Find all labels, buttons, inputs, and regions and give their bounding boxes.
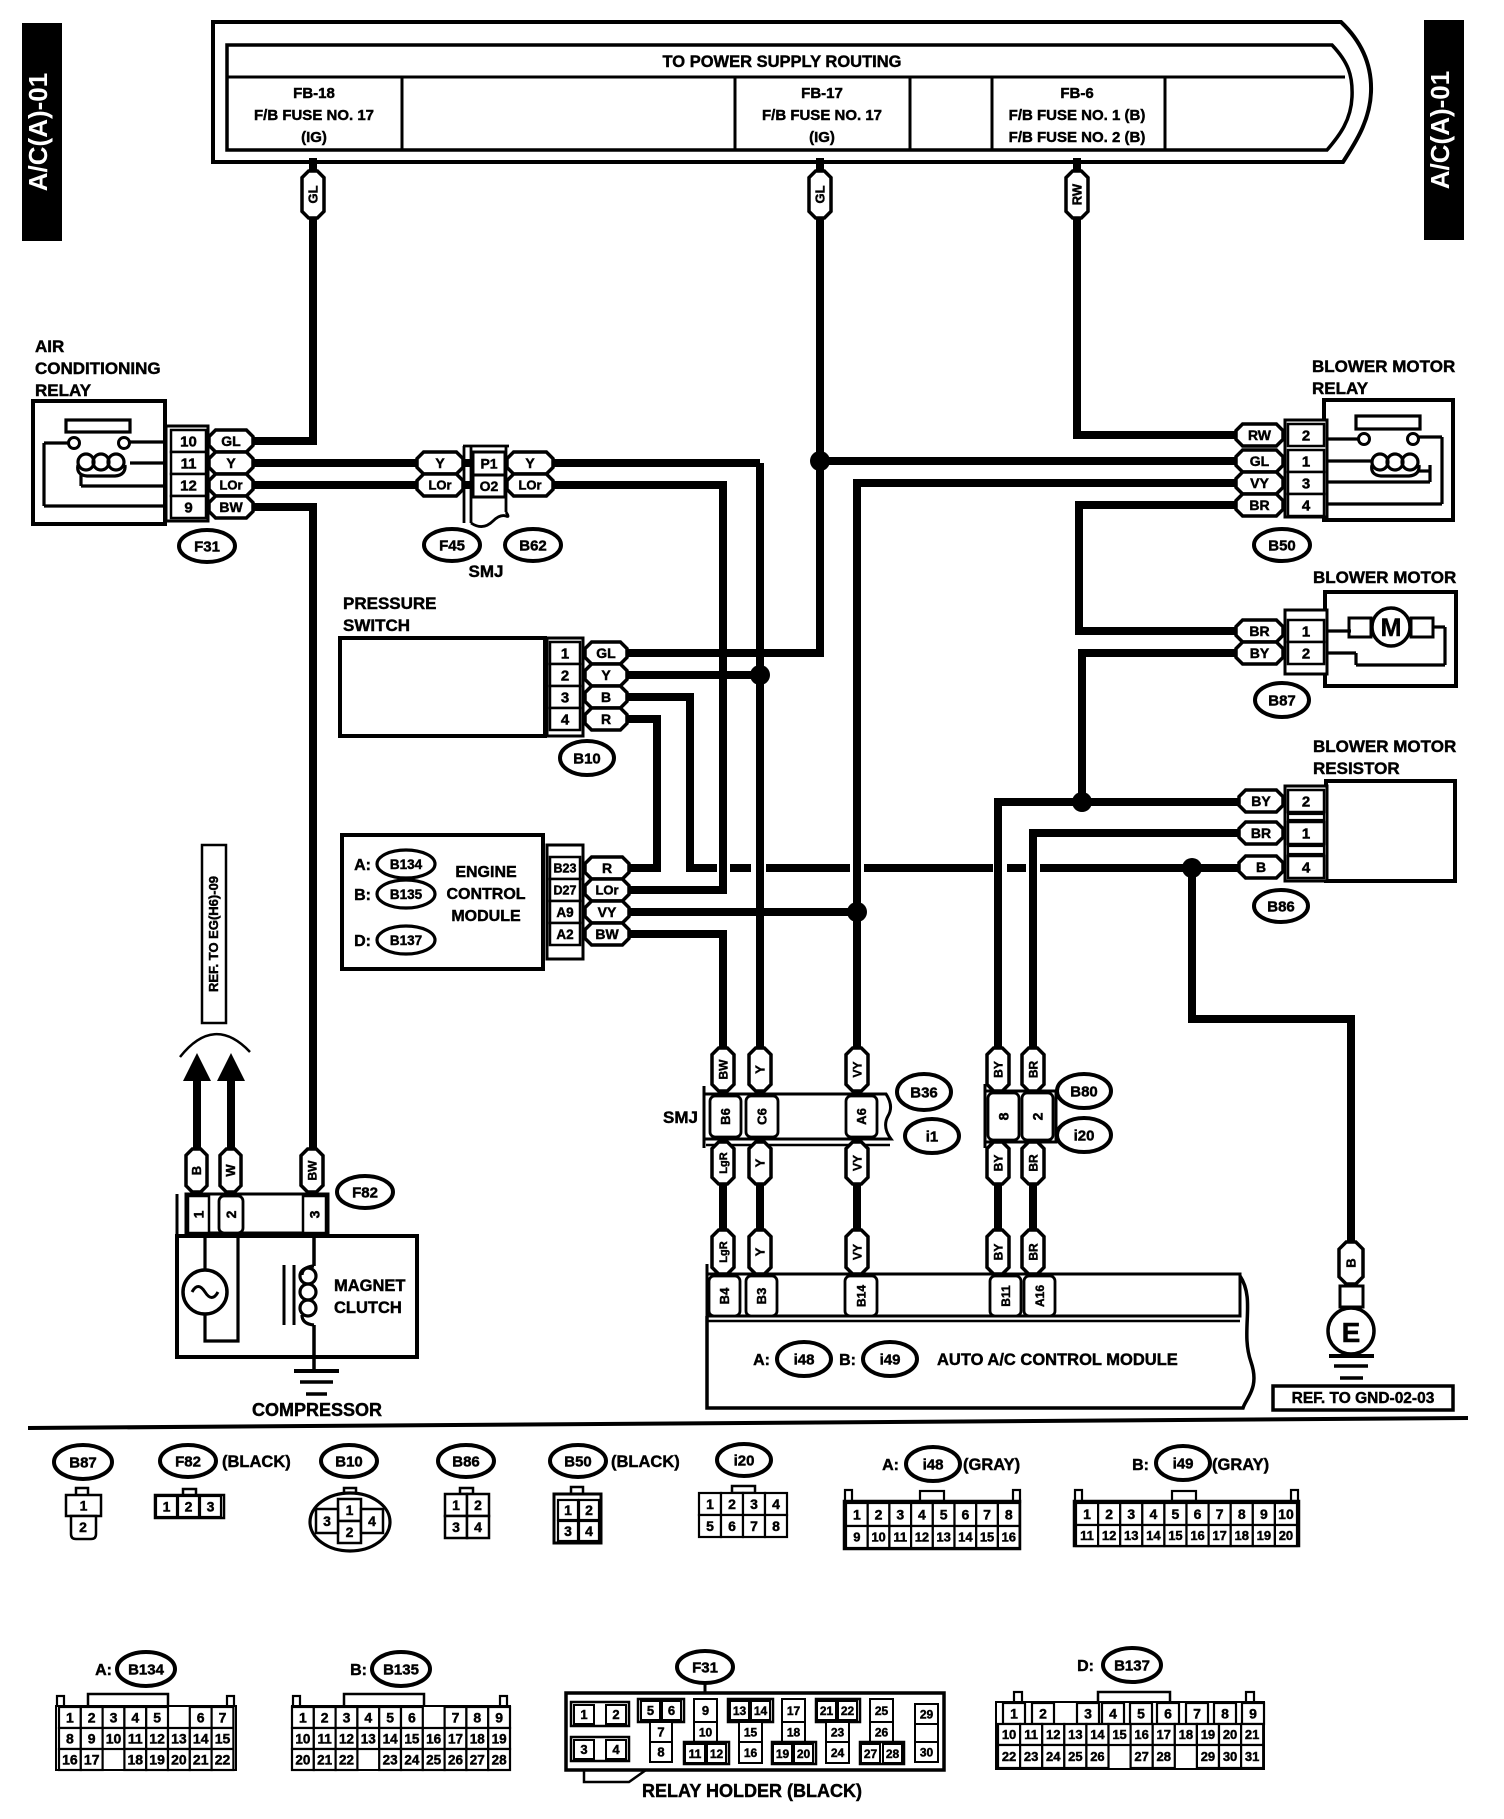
wire BR blower motor relay pin 4 to blower motor pin 1 [1079,505,1240,631]
svg-text:4: 4 [1149,1506,1157,1522]
svg-text:BR: BR [1026,1061,1040,1079]
svg-text:COMPRESSOR: COMPRESSOR [252,1400,382,1420]
svg-text:2: 2 [875,1507,883,1523]
svg-text:B10: B10 [573,750,601,767]
svg-text:9: 9 [853,1530,860,1545]
svg-text:B134: B134 [390,857,423,872]
svg-text:LgR: LgR [718,1241,730,1262]
svg-text:14: 14 [383,1731,399,1746]
svg-text:B:: B: [354,887,371,904]
wire label BR pill (mid row 1) [1022,1142,1044,1184]
svg-text:5: 5 [706,1518,714,1534]
svg-text:12: 12 [710,1747,724,1761]
auto A/C control module band [707,1274,1240,1316]
svg-text:14: 14 [193,1731,209,1747]
svg-text:(BLACK): (BLACK) [611,1453,680,1471]
svg-text:21: 21 [193,1752,209,1768]
svg-text:13: 13 [1124,1528,1138,1543]
compressor connector strip F82 [176,1194,179,1236]
svg-text:7: 7 [657,1725,664,1740]
svg-text:B50: B50 [564,1453,592,1470]
svg-text:20: 20 [797,1747,811,1761]
pin label BY (blower motor pin 2) [1236,642,1283,664]
svg-text:2: 2 [88,1710,96,1726]
svg-text:12: 12 [1102,1528,1116,1543]
svg-text:FB-18: FB-18 [293,85,335,102]
pin label BW (ECM A2) [585,923,629,945]
svg-text:28: 28 [1157,1749,1171,1764]
svg-text:B87: B87 [1268,692,1296,709]
module band cell B4 [709,1276,740,1316]
svg-text:B:: B: [350,1662,367,1679]
svg-text:27: 27 [1134,1749,1148,1764]
svg-text:10: 10 [699,1725,713,1739]
svg-text:1: 1 [1302,453,1310,470]
wire GL from FB-17 down to junction [816,158,824,461]
svg-text:11: 11 [689,1747,702,1761]
pin label Y (SMJ left) [417,452,463,474]
svg-text:21: 21 [317,1752,333,1767]
svg-text:BR: BR [1026,1154,1040,1172]
wire VY junction down to auto A/C control module B14 [853,912,861,1278]
svg-text:12: 12 [1046,1727,1060,1742]
ECM connector strip [547,845,583,959]
svg-text:28: 28 [886,1747,900,1761]
svg-text:7: 7 [750,1518,758,1534]
svg-text:2: 2 [223,1210,239,1218]
svg-text:A6: A6 [854,1108,869,1125]
svg-text:11: 11 [318,1731,333,1746]
svg-text:VY: VY [850,1061,864,1077]
svg-text:B87: B87 [69,1454,97,1471]
svg-text:20: 20 [1279,1528,1293,1543]
svg-text:A:: A: [882,1457,899,1474]
svg-text:16: 16 [426,1731,442,1746]
svg-text:12: 12 [149,1731,165,1747]
svg-text:11: 11 [893,1530,907,1545]
blower motor resistor box [1326,781,1455,881]
svg-text:SMJ: SMJ [469,562,504,581]
svg-text:1: 1 [1302,825,1310,842]
svg-text:VY: VY [850,1244,864,1260]
pressure switch box [340,638,545,736]
wire B horizontal run to blower motor resistor pin 4 [730,864,751,872]
svg-text:C6: C6 [755,1108,770,1125]
svg-text:LOr: LOr [595,883,618,898]
connector B87 pinout [54,1445,112,1479]
svg-text:FB-6: FB-6 [1060,85,1093,102]
svg-text:AUTO A/C CONTROL MODULE: AUTO A/C CONTROL MODULE [937,1351,1178,1369]
svg-text:5: 5 [1137,1706,1145,1722]
svg-text:Y: Y [753,1158,768,1167]
svg-text:8: 8 [66,1731,74,1747]
svg-text:TO POWER SUPPLY ROUTING: TO POWER SUPPLY ROUTING [663,53,902,71]
svg-text:B: B [1256,859,1266,875]
svg-text:3: 3 [343,1710,351,1726]
power supply routing bus [213,22,1371,162]
svg-text:R: R [602,860,612,876]
svg-text:1: 1 [561,645,569,662]
svg-text:16: 16 [1002,1530,1016,1545]
blower motor relay internals [1356,416,1420,429]
svg-text:18: 18 [787,1725,801,1739]
SMJ cell O2 [473,475,505,497]
blower motor internals [1327,629,1351,632]
svg-text:1: 1 [706,1496,714,1512]
SMJ band cell B6 [710,1096,741,1137]
svg-text:i20: i20 [1074,1127,1095,1144]
svg-text:6: 6 [1194,1506,1202,1522]
connector i20 oval [1057,1118,1111,1152]
svg-text:1: 1 [346,1502,354,1518]
svg-text:O2: O2 [480,478,499,494]
svg-text:RELAY: RELAY [35,381,92,400]
svg-text:19: 19 [776,1747,790,1761]
svg-text:1: 1 [66,1710,74,1726]
svg-text:8: 8 [1221,1706,1229,1722]
wire label RW pill (FB-6 drop) [1066,171,1088,218]
svg-text:BR: BR [1249,497,1269,513]
svg-text:B134: B134 [128,1661,165,1678]
pin label LOr (SMJ right) [507,474,553,496]
svg-text:LOr: LOr [219,478,242,493]
svg-text:3: 3 [580,1742,587,1757]
svg-text:12: 12 [339,1731,354,1746]
svg-text:1: 1 [1083,1506,1091,1522]
ground lead terminal box [1340,1286,1363,1307]
svg-text:5: 5 [647,1703,654,1718]
svg-text:11: 11 [181,455,197,472]
svg-text:1: 1 [853,1507,861,1523]
svg-text:9: 9 [184,499,192,516]
svg-text:Y: Y [435,455,445,471]
svg-text:19: 19 [492,1731,507,1746]
svg-text:B135: B135 [390,887,423,902]
page tab A/C(A)-01 left [22,23,62,241]
ground E symbol [1328,1308,1374,1354]
svg-text:30: 30 [1223,1749,1237,1764]
svg-text:2: 2 [1302,427,1310,444]
svg-text:3: 3 [564,1523,572,1539]
svg-text:BLOWER MOTOR: BLOWER MOTOR [1312,357,1455,376]
svg-text:28: 28 [492,1752,508,1767]
svg-text:2: 2 [1302,793,1310,810]
svg-text:P1: P1 [480,456,497,472]
svg-text:9: 9 [1249,1706,1257,1722]
svg-text:14: 14 [754,1704,768,1718]
wire label VY pill (SMJ upper) [846,1048,868,1091]
svg-text:10: 10 [1278,1506,1294,1522]
pin label LOr (ECM D27) [585,879,629,901]
svg-text:Y: Y [226,455,236,471]
svg-text:B86: B86 [1267,898,1295,915]
module band cell B3 [746,1276,777,1316]
svg-text:17: 17 [84,1752,100,1768]
svg-text:14: 14 [1146,1528,1161,1543]
svg-text:6: 6 [197,1710,205,1726]
REF. TO EG(H6)-09 box [202,845,226,1023]
pin label W (compressor pin 2) [220,1149,241,1192]
svg-text:10: 10 [106,1731,122,1747]
svg-text:6: 6 [668,1703,675,1718]
pin label R (ECM B23) [585,857,629,879]
connector B86 pinout [438,1445,494,1477]
svg-text:B: B [189,1166,204,1175]
wire RW from FB-6 to blower motor relay pin 2 [1077,158,1240,435]
svg-text:7: 7 [452,1710,460,1726]
compressor ground symbol [294,1369,339,1373]
svg-text:Y: Y [525,455,535,471]
svg-text:A:: A: [354,857,371,874]
wire BY blower motor pin 2 down to junction [1082,653,1240,802]
connector i1 oval [905,1119,959,1153]
svg-text:B62: B62 [519,537,547,554]
arrow up W [227,1079,235,1152]
svg-text:B: B [1344,1258,1359,1267]
svg-text:i49: i49 [1173,1455,1194,1472]
svg-text:3: 3 [1084,1706,1092,1722]
svg-text:F82: F82 [175,1453,201,1470]
svg-text:FB-17: FB-17 [801,85,843,102]
SMJ band cell A6 [846,1096,877,1137]
magnet clutch core lines [283,1265,286,1325]
svg-text:B:: B: [839,1352,856,1369]
svg-text:8: 8 [996,1112,1012,1120]
wire LOr from A/C relay pin 12 through SMJ down to ECM D27 [250,485,723,890]
svg-text:30: 30 [920,1745,934,1759]
junction dot VY [847,902,867,922]
svg-text:LOr: LOr [428,478,451,493]
svg-text:BR: BR [1026,1243,1040,1261]
svg-text:16: 16 [1190,1528,1204,1543]
svg-text:BW: BW [305,1160,319,1181]
svg-text:15: 15 [1168,1528,1182,1543]
svg-text:R: R [601,711,611,727]
svg-text:23: 23 [831,1725,845,1739]
connector B87 oval [1255,683,1309,717]
pin label BY (resistor pin 2) [1239,790,1283,812]
svg-text:23: 23 [1024,1749,1038,1764]
svg-text:4: 4 [131,1710,139,1726]
svg-text:14: 14 [1090,1727,1105,1742]
pin label BW (A/C relay pin 9) [209,496,253,518]
junction dot B [1182,858,1202,878]
svg-text:1: 1 [80,1498,88,1514]
svg-text:7: 7 [1193,1706,1201,1722]
svg-text:12: 12 [915,1530,929,1545]
module band cell B14 [845,1276,877,1316]
wire label BR pill (SMJ upper) [1022,1048,1044,1091]
REF. TO GND-02-03 box [1273,1386,1453,1410]
auto A/C control module box [707,1276,1254,1408]
svg-text:5: 5 [940,1507,948,1523]
svg-text:4: 4 [1302,497,1311,514]
svg-text:1: 1 [580,1707,587,1722]
wire GL junction to blower motor relay pin 1 [820,457,1240,465]
svg-text:B: B [601,689,611,705]
svg-text:1: 1 [299,1710,307,1726]
svg-text:23: 23 [383,1752,399,1767]
wire B pressure switch pin 3 down to horizontal run [625,697,717,868]
pin label GL (blower relay pin 1) [1236,450,1283,472]
wire VY junction up to blower motor relay pin 3 [857,483,1240,912]
svg-text:LOr: LOr [518,478,541,493]
svg-text:AIR: AIR [35,337,64,356]
svg-text:F82: F82 [352,1184,378,1201]
svg-text:GL: GL [596,645,616,661]
connector F82 pinout [160,1445,216,1477]
svg-text:20: 20 [171,1752,187,1768]
junction dot Y [750,665,770,685]
svg-text:10: 10 [295,1731,310,1746]
svg-text:20: 20 [295,1752,310,1767]
svg-text:11: 11 [1024,1727,1038,1742]
svg-text:A:: A: [95,1662,112,1679]
svg-text:4: 4 [1109,1706,1117,1722]
SMJ bracket [463,446,466,523]
pin label BR (blower relay pin 4) [1236,494,1283,516]
pin label Y (A/C relay pin 11) [209,452,253,474]
svg-text:19: 19 [149,1752,165,1768]
wire label GL pill (FB-17 drop) [809,171,831,218]
svg-text:15: 15 [1112,1727,1126,1742]
svg-text:3: 3 [1127,1506,1135,1522]
svg-text:BY: BY [1250,645,1270,661]
svg-text:4: 4 [612,1742,620,1757]
svg-text:2: 2 [612,1707,619,1722]
wire BW from A/C relay pin 9 down to compressor pin 3 [250,507,313,1152]
svg-text:17: 17 [1212,1528,1226,1543]
svg-text:22: 22 [339,1752,354,1767]
svg-text:4: 4 [918,1507,926,1523]
svg-text:16: 16 [1134,1727,1148,1742]
svg-text:13: 13 [733,1704,747,1718]
svg-text:E: E [1342,1317,1361,1348]
svg-text:MODULE: MODULE [451,908,521,925]
pin label BR (blower motor pin 1) [1236,620,1283,642]
svg-text:15: 15 [744,1725,758,1739]
svg-text:13: 13 [1068,1727,1082,1742]
svg-text:16: 16 [62,1752,78,1768]
svg-text:22: 22 [1002,1749,1016,1764]
svg-text:CONDITIONING: CONDITIONING [35,359,161,378]
connector i20 pinout [717,1444,771,1476]
pin label VY (ECM A9) [585,901,629,923]
svg-text:16: 16 [744,1746,758,1760]
svg-text:3: 3 [307,1210,323,1218]
svg-text:21: 21 [820,1704,834,1718]
blower motor relay box [1324,400,1453,520]
svg-text:13: 13 [171,1731,187,1747]
svg-text:F/B FUSE NO. 17: F/B FUSE NO. 17 [254,107,374,124]
svg-text:17: 17 [448,1731,463,1746]
connector B50 pinout [550,1445,606,1477]
svg-text:31: 31 [1245,1749,1259,1764]
connector F82 oval [337,1176,393,1208]
wire BY resistor pin 2 run to SMJ pin 8 [998,802,1242,1278]
svg-text:RW: RW [1070,183,1085,205]
svg-text:BW: BW [716,1059,730,1080]
svg-text:F31: F31 [692,1659,718,1676]
pin label Y (SMJ right) [507,452,553,474]
svg-text:BR: BR [1251,825,1271,841]
svg-text:B11: B11 [999,1285,1013,1307]
svg-text:BY: BY [991,1155,1005,1172]
svg-text:19: 19 [1201,1727,1215,1742]
connector F31 oval [179,530,235,562]
wire R pressure switch pin 4 to ECM B23 [625,719,657,868]
wire B resistor junction down to ground E [1192,868,1351,1244]
svg-text:4: 4 [585,1523,593,1539]
wire label GL pill (FB-18 drop) [302,171,324,218]
svg-text:B4: B4 [717,1287,732,1304]
separator line [28,1418,1468,1428]
svg-text:3: 3 [323,1513,331,1529]
svg-text:4: 4 [772,1496,780,1512]
connector B36 oval [897,1074,951,1110]
pin label B (resistor pin 4) [1239,856,1283,878]
svg-text:BW: BW [219,499,243,515]
svg-text:15: 15 [980,1530,994,1545]
svg-text:W: W [223,1164,238,1177]
svg-text:14: 14 [958,1530,973,1545]
svg-text:D27: D27 [554,884,577,898]
svg-text:VY: VY [598,904,617,920]
svg-text:D:: D: [1077,1658,1094,1675]
svg-text:1: 1 [564,1502,572,1518]
svg-text:3: 3 [1302,475,1310,492]
svg-text:1: 1 [1302,623,1310,640]
wire Y pressure switch pin 2 to junction [625,671,760,679]
module band cell A16 [1024,1276,1055,1316]
svg-text:19: 19 [1257,1528,1271,1543]
svg-text:25: 25 [1068,1749,1082,1764]
svg-text:GL: GL [813,185,828,203]
wire compressor pin 1 to AC source [203,1233,206,1271]
svg-text:4: 4 [474,1519,482,1535]
svg-text:A2: A2 [556,927,573,942]
wire AC source to compressor pin 2 [205,1233,238,1341]
blower motor box [1325,592,1456,686]
svg-text:9: 9 [88,1731,96,1747]
wire Y vertical down to auto A/C control module B3 [756,463,764,1278]
svg-text:12: 12 [180,477,197,494]
svg-text:i48: i48 [923,1456,944,1473]
wire GL from FB-18 to A/C relay pin 10 [250,158,313,441]
wire label LgR pill (mid row 2) [712,1230,734,1274]
svg-text:A9: A9 [556,905,573,920]
svg-text:i49: i49 [880,1351,901,1368]
blower motor resistor connector strip B86 [1285,786,1327,881]
engine control module box [342,835,543,969]
pin label VY (blower relay pin 3) [1236,472,1283,494]
wire label Y pill (SMJ upper) [749,1048,771,1091]
svg-text:9: 9 [702,1703,709,1718]
svg-text:i20: i20 [734,1452,755,1469]
svg-text:7: 7 [219,1710,227,1726]
svg-text:15: 15 [215,1731,231,1747]
svg-text:10: 10 [180,433,197,450]
svg-text:11: 11 [1080,1528,1094,1543]
svg-text:22: 22 [215,1752,231,1768]
svg-text:F31: F31 [194,538,220,555]
svg-text:6: 6 [1164,1706,1172,1722]
wire Y from A/C relay pin 11 through SMJ to vertical [250,459,760,467]
module band cell B11 [990,1276,1021,1316]
svg-text:A16: A16 [1033,1285,1047,1307]
svg-text:24: 24 [404,1752,420,1767]
svg-text:GL: GL [1250,453,1270,469]
